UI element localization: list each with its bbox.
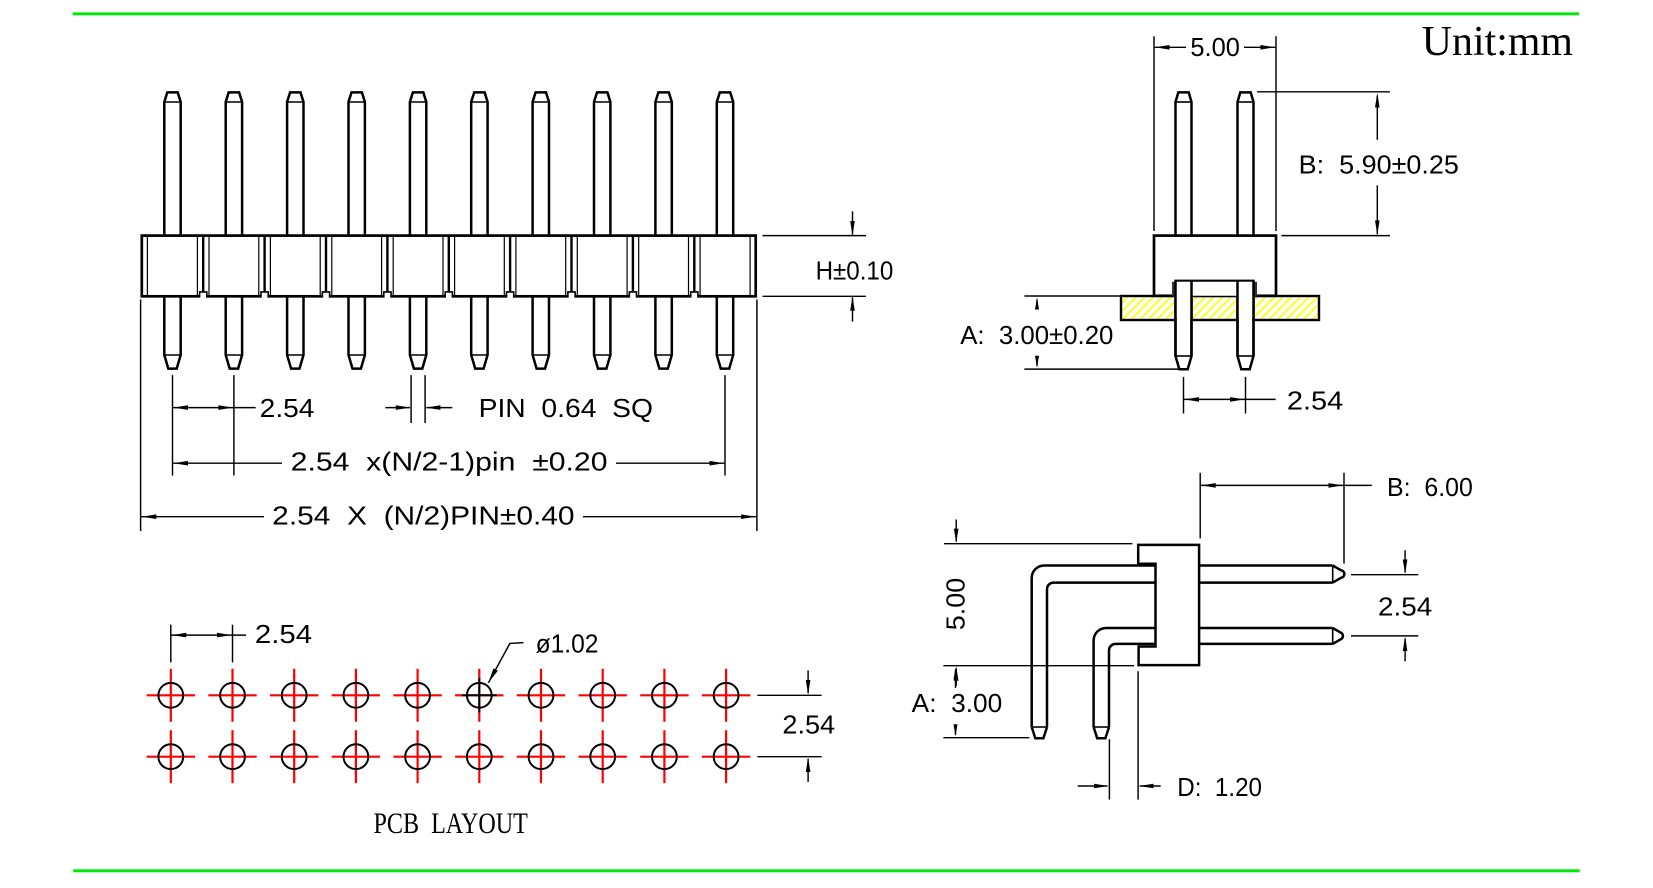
pcb hole r1c1 circle xyxy=(158,683,183,708)
svg-text:PIN 0.64 SQ: PIN 0.64 SQ xyxy=(479,393,653,423)
dim 5.00: extension line left xyxy=(1153,36,1155,231)
pcb hole r2c3 red crosshair xyxy=(270,756,318,758)
top green border line xyxy=(73,12,1580,15)
dim B6: extension line left (body right edge) xyxy=(1199,473,1201,539)
dim 2.54 ra: arrow bottom xyxy=(1404,639,1406,662)
right-angle view upper pin tip (bottom) xyxy=(1032,727,1047,738)
dim D: extension line right (body edge) xyxy=(1137,671,1139,799)
right-angle view body xyxy=(1138,545,1199,665)
pcb hole r1c9 circle xyxy=(652,683,677,708)
svg-text:Unit:mm: Unit:mm xyxy=(1422,19,1574,65)
dim (N/2): dimension line right part xyxy=(583,516,757,518)
pcb hole r2c7 circle xyxy=(529,744,554,769)
front view insulator body xyxy=(142,236,756,297)
dim (N/2): extension body left xyxy=(140,300,142,532)
front view pin 5 upper shank xyxy=(410,92,426,235)
front view pin 10 lower tail xyxy=(717,296,733,368)
front view pin 2 lower tail xyxy=(226,296,242,368)
dim D: left arrow xyxy=(1078,785,1108,787)
pcb hole r2c8 circle xyxy=(590,744,615,769)
pcb hole r2c2 red crosshair xyxy=(208,756,256,758)
dim A: arrow bottom xyxy=(1036,357,1038,366)
body chamfer line left xyxy=(146,237,148,296)
pcb hole r2c8 red crosshair xyxy=(579,756,627,758)
front view pin 4 lower tail xyxy=(349,296,365,368)
side view pin 1 lower tail through PCB xyxy=(1176,280,1192,370)
pcb hole r1c5 circle xyxy=(405,683,430,708)
pcb hole r2c6 circle xyxy=(467,744,492,769)
dim B: extension line bottom (body top level) xyxy=(1281,235,1390,237)
dim 5.00 vert: extension line top xyxy=(944,543,1132,545)
body segment boundary 2 xyxy=(263,236,265,297)
pcb hole r2c7 red crosshair xyxy=(517,756,565,758)
dim B: arrow bottom xyxy=(1376,185,1378,234)
svg-text:2.54: 2.54 xyxy=(782,709,835,739)
right-angle view lower pin tip (bottom) xyxy=(1094,727,1109,738)
pcb hole r1c7 circle xyxy=(529,683,554,708)
dim A: arrow top xyxy=(1036,300,1038,310)
pcb hole r2c5 circle xyxy=(405,744,430,769)
dim (N/2): dimension line left part xyxy=(141,516,264,518)
svg-text:2.54 X (N/2)PIN±0.40: 2.54 X (N/2)PIN±0.40 xyxy=(272,500,574,530)
dim 5.00: extension line right xyxy=(1275,36,1277,231)
dim A3: arrow bottom xyxy=(955,724,957,735)
dim B6: extension line right (pin tip) xyxy=(1343,473,1345,564)
pcb hole r1c3 red crosshair xyxy=(270,694,318,696)
front view pin 10 upper shank xyxy=(717,92,733,235)
dim pin sq: left arrow xyxy=(385,407,410,409)
dim 2.54 ra: arrow top xyxy=(1404,550,1406,572)
dimension H arrow top xyxy=(852,211,854,234)
dim 2.54 pcb: dimension line xyxy=(171,634,246,636)
svg-text:5.00: 5.00 xyxy=(941,578,971,630)
pcb hole r1c4 circle xyxy=(344,683,369,708)
pcb hole r2c1 circle xyxy=(158,744,183,769)
pcb hole r1c2 circle xyxy=(220,683,245,708)
svg-text:B: 5.90±0.25: B: 5.90±0.25 xyxy=(1299,150,1459,180)
dimension H arrow bottom xyxy=(852,297,854,321)
dim B6: dimension line xyxy=(1200,484,1372,486)
svg-text:5.00: 5.00 xyxy=(1190,32,1240,62)
pcb hole r1c5 red crosshair xyxy=(393,694,441,696)
dim 2.54 ra: extension line bottom xyxy=(1351,635,1418,637)
pcb hole r2c3 circle xyxy=(282,744,307,769)
dim 5.00 vert + A shared extension line (pcb plane) xyxy=(943,665,1134,667)
dimension H extension line bottom xyxy=(763,295,867,297)
pcb hole r1c10 red crosshair xyxy=(702,694,750,696)
front view pin 5 lower tail xyxy=(410,296,426,368)
svg-text:D: 1.20: D: 1.20 xyxy=(1177,772,1262,802)
dim 2.54 pcbr: extension line row2 xyxy=(757,756,821,758)
dim 2.54 front: extension line at pin2 xyxy=(233,375,235,475)
front view pin 2 upper shank xyxy=(226,92,242,235)
pcb hole r2c1 red crosshair xyxy=(147,756,195,758)
front view pin 9 lower tail xyxy=(655,296,671,368)
dim (N/2-1): extension pin1 (shared above), extension pin10 xyxy=(724,375,726,475)
dim 2.54 pcbr: extension line row1 xyxy=(757,694,821,696)
pcb hole r1c6 red crosshair xyxy=(455,694,503,696)
svg-text:ø1.02: ø1.02 xyxy=(536,628,599,658)
dim A: extension line bottom (pin tip) xyxy=(1024,368,1180,370)
dim 2.54 front: dimension line xyxy=(173,407,256,409)
pcb hole r1c6 black crosshair (referenced by leader) xyxy=(462,694,497,696)
side view pin 2 upper shank xyxy=(1238,92,1254,235)
dim 2.54 side: dimension line xyxy=(1184,398,1276,400)
svg-text:2.54: 2.54 xyxy=(1287,386,1343,416)
dim (N/2-1): dimension line right part xyxy=(616,462,725,464)
front view pin 3 lower tail xyxy=(287,296,303,368)
pcb hole r1c9 red crosshair xyxy=(640,694,688,696)
front view pin 4 upper shank xyxy=(349,92,365,235)
pcb hole r2c5 red crosshair xyxy=(393,756,441,758)
dim 2.54 side: extension pin1 xyxy=(1183,377,1185,414)
front view pin 6 lower tail xyxy=(471,296,487,368)
svg-text:B: 6.00: B: 6.00 xyxy=(1387,472,1473,502)
svg-text:2.54: 2.54 xyxy=(255,619,312,649)
body segment boundary 3 xyxy=(325,236,327,297)
svg-text:H±0.10: H±0.10 xyxy=(816,255,894,285)
svg-text:2.54: 2.54 xyxy=(1378,592,1432,622)
pcb hole r2c2 circle xyxy=(220,744,245,769)
side view pins crossing collar xyxy=(1176,282,1192,318)
pcb hole r1c3 circle xyxy=(282,683,307,708)
dim pin sq: extension line left edge pin5 xyxy=(410,375,412,423)
front view pin 1 lower tail xyxy=(164,296,180,368)
dim A3: arrow top xyxy=(955,670,957,688)
side view pin 2 lower tail through PCB xyxy=(1238,280,1254,370)
front view pin 8 upper shank xyxy=(594,92,610,235)
dim (N/2): extension body right xyxy=(756,300,758,532)
dim A: extension line top (pcb top) xyxy=(1024,295,1122,297)
dim D: extension line left (pin edge) xyxy=(1108,739,1110,799)
pcb hole r1c8 red crosshair xyxy=(579,694,627,696)
bottom green border line xyxy=(73,869,1580,872)
dim 2.54 side: extension pin2 xyxy=(1245,377,1247,414)
pcb hole r1c6 circle xyxy=(467,683,492,708)
leader line for hole diameter xyxy=(488,643,523,683)
dim A3: extension line bottom xyxy=(943,737,1029,739)
front view pin 7 lower tail xyxy=(533,296,549,368)
dim 5.00 vert: arrow top xyxy=(955,520,957,542)
pcb hole r2c9 red crosshair xyxy=(640,756,688,758)
pcb hole r2c9 circle xyxy=(652,744,677,769)
front view pin 1 upper shank xyxy=(164,92,180,235)
right-angle view upper pin (outer) xyxy=(1032,566,1156,728)
dim (N/2-1): dimension line left part xyxy=(173,462,283,464)
dim 2.54 pcbr: arrow top xyxy=(807,670,809,693)
side view PCB with hatch xyxy=(1121,296,1319,320)
pcb hole r1c4 red crosshair xyxy=(332,694,380,696)
side view body bottom collar xyxy=(1176,281,1254,296)
dim B: extension line top (pin tip level) xyxy=(1257,91,1390,93)
pcb hole r2c6 red crosshair xyxy=(455,756,503,758)
pcb hole r1c8 circle xyxy=(590,683,615,708)
dim 2.54 ra: extension line top xyxy=(1351,574,1418,576)
dim D: right arrow xyxy=(1140,785,1161,787)
body segment boundary 7 xyxy=(570,236,572,297)
front view pin 3 upper shank xyxy=(287,92,303,235)
pcb hole r2c10 red crosshair xyxy=(702,756,750,758)
right-angle view pins right side (exit body) xyxy=(1199,564,1333,567)
svg-text:2.54: 2.54 xyxy=(260,393,315,423)
pcb hole r1c10 circle xyxy=(714,683,739,708)
svg-text:2.54 x(N/2-1)pin ±0.20: 2.54 x(N/2-1)pin ±0.20 xyxy=(291,447,608,477)
body segment boundary 1 xyxy=(202,236,204,297)
pcb hole r2c4 circle xyxy=(344,744,369,769)
pcb hole r1c1 red crosshair xyxy=(147,694,195,696)
svg-text:PCB LAYOUT: PCB LAYOUT xyxy=(374,807,528,840)
right-angle view lower pin (inner) xyxy=(1094,628,1156,727)
dim 5.00 vert: arrow bottom xyxy=(955,669,957,687)
dim pin sq: right arrow xyxy=(426,407,452,409)
dim 2.54 pcb: extension line hole2 xyxy=(232,625,234,663)
dim 2.54 front: extension line at pin1 xyxy=(172,375,174,475)
pcb hole r2c10 circle xyxy=(714,744,739,769)
pcb hole r1c7 red crosshair xyxy=(517,694,565,696)
side view insulator body xyxy=(1154,236,1276,296)
side view pin 1 upper shank xyxy=(1176,92,1192,235)
body segment boundary 6 xyxy=(509,236,511,297)
front view pin 6 upper shank xyxy=(471,92,487,235)
svg-text:A: 3.00±0.20: A: 3.00±0.20 xyxy=(960,320,1113,350)
dim 5.00: dimension line xyxy=(1154,46,1186,48)
dim B: arrow top xyxy=(1376,96,1378,140)
body segment boundary 8 xyxy=(632,236,634,297)
dim 2.54 pcb: extension line hole1 xyxy=(170,625,172,663)
dim pin sq: extension line right edge pin5 xyxy=(424,375,426,423)
dim 2.54 pcbr: arrow bottom xyxy=(807,759,809,782)
body segment boundary 9 xyxy=(693,236,695,297)
front view pin 9 upper shank xyxy=(655,92,671,235)
body chamfer line right xyxy=(749,237,751,296)
body segment boundary 4 xyxy=(386,236,388,297)
front view pin 8 lower tail xyxy=(594,296,610,368)
pcb hole r1c2 red crosshair xyxy=(208,694,256,696)
svg-text:A: 3.00: A: 3.00 xyxy=(912,688,1003,718)
dimension H extension line top xyxy=(763,235,867,237)
pcb hole r2c4 red crosshair xyxy=(332,756,380,758)
body segment boundary 5 xyxy=(448,236,450,297)
front view pin 7 upper shank xyxy=(533,92,549,235)
